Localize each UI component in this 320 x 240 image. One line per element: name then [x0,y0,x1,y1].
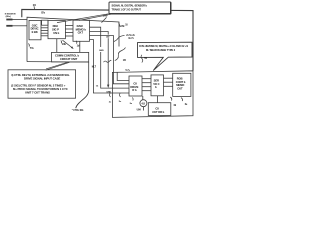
label 10a with curl below U1 [28,44,34,51]
svg-text:GND: GND [99,50,104,52]
svg-text:UNIT 7 CKT TRANS: UNIT 7 CKT TRANS [25,91,50,95]
callout box T3 (big note bottom-left) [8,62,76,98]
wire U3 to U4 vertical [79,41,81,52]
wire bus U2-U3 lines [65,26,73,37]
label 2x 5x 2x near wires [126,35,135,40]
svg-text:3x 7x: 3x 7x [128,38,134,40]
svg-text:E BK: E BK [32,30,38,34]
svg-text:T/A: T/A [30,47,34,50]
label NLT on wire [92,66,97,68]
label 10b below U2 [61,41,67,46]
label 50 with curl [141,55,148,63]
svg-text:2x 5x 2x: 2x 5x 2x [126,35,135,37]
wire input line 2 with terminal [6,25,27,27]
svg-text:(2Hz): (2Hz) [6,16,11,18]
svg-text:* CTRL SIG: * CTRL SIG [72,110,84,112]
leader T1 to U2 [57,14,109,23]
svg-text:2x: 2x [109,102,112,104]
svg-text:COMM CONTROL b: COMM CONTROL b [55,54,79,58]
svg-text:CKT: CKT [177,87,183,91]
block U1 OSC [29,20,41,39]
svg-text:5x: 5x [119,101,122,103]
svg-text:R b: R b [132,88,137,92]
svg-text:UN b: UN b [53,31,59,35]
node IN label (left outside text) [5,13,16,17]
wire W4 from U3 down to footnote curve [90,40,130,94]
wire W3 from U3 to sub-box corner [90,36,130,84]
label 10c below U3 [76,41,80,48]
callout box T1 (top-right note) [109,2,171,14]
svg-text:O BLUEZONE M, DIGITAL+4 CH AND: O BLUEZONE M, DIGITAL+4 CH AND X2 +S [139,45,188,48]
block U3 RAM [73,20,90,41]
wire W1 from U3 down (with GND label) [90,27,130,88]
block U7 memory [173,73,191,96]
label 6e below U7 [181,98,188,106]
svg-text:TRANS 1 OF 2-D OUTPUT: TRANS 1 OF 2-D OUTPUT [112,8,142,11]
motor M1 circle [140,100,147,107]
callout box T2 (right note) [138,42,193,70]
svg-text:4.8: 4.8 [141,101,145,105]
label 6d below U7 [170,97,177,107]
wire input line 1 with terminal [6,19,27,21]
svg-text:U84: U84 [137,109,142,112]
wire U5 to motor [142,96,144,100]
wire sub left vertical A [117,72,129,81]
frame 1 (outermost figure frame) [22,9,193,70]
svg-text:M / NEAR RANGE TYPE 2: M / NEAR RANGE TYPE 2 [146,49,176,52]
svg-text:5.7+: 5.7+ [126,69,131,72]
svg-text:10: 10 [33,3,37,7]
svg-text:SIGNAL M, DIGITAL-SENSOR b: SIGNAL M, DIGITAL-SENSOR b [112,4,148,7]
block U4 interface [52,52,89,62]
label ACM 10 at corner [119,23,129,28]
wire bus U5-U6 [142,79,151,91]
wire bus U6-U7 [164,78,173,86]
svg-text:CIRCUIT UNIT: CIRCUIT UNIT [60,57,78,61]
wire W2 from U3 down with arrow [90,32,112,94]
label 87a under frame edge [41,12,45,14]
sub-box 200 (robot unit) [112,69,193,118]
label 1B with wavy leader [115,48,126,63]
svg-text:1k: 1k [96,86,99,88]
svg-text:AD: AD [106,36,110,39]
svg-text:CKT DR b: CKT DR b [152,110,164,114]
svg-text:87a: 87a [41,12,45,14]
svg-text:CKT: CKT [78,31,84,35]
svg-text:CII: CII [155,106,159,110]
block U5 driver [129,76,142,96]
svg-text:6d: 6d [174,105,177,107]
label 1g below U5 [130,98,134,106]
wire motor down [142,107,144,111]
block U2 processor [48,21,65,39]
squiggle leader to labels [114,36,125,42]
footnote label [72,110,84,112]
leader to U4 diagonal [63,40,74,49]
svg-text:NLT: NLT [92,66,97,68]
block U6 servo [151,75,164,96]
brace on wires [104,60,112,62]
leader T1 to U3 [79,14,113,21]
label under motor [137,109,142,112]
outer box 100 (main unit, slightly skewed scan) [27,17,119,62]
block U8 [148,103,171,116]
svg-text:DRIVE SIGNAL INPUT CASE: DRIVE SIGNAL INPUT CASE [24,77,60,81]
label 10 on frame with tick [33,3,37,10]
wire U2 to U4 vertical [56,39,58,53]
svg-text:10: 10 [125,25,128,27]
svg-text:ACM: ACM [119,25,125,28]
sub-box left stubs with labels [109,93,122,103]
wire U6 to U8 [157,96,159,103]
bus U1-U2 top pair (small rect) [42,20,48,25]
wire bus U1-U2 lines [41,28,48,36]
wire U4 corner down to footnote curve [76,62,89,108]
svg-text:10b: 10b [62,43,67,46]
svg-text:1B: 1B [123,59,126,62]
svg-text:2a: 2a [130,103,133,105]
svg-text:6e: 6e [185,104,188,106]
label 100 with leader tick [102,13,108,22]
